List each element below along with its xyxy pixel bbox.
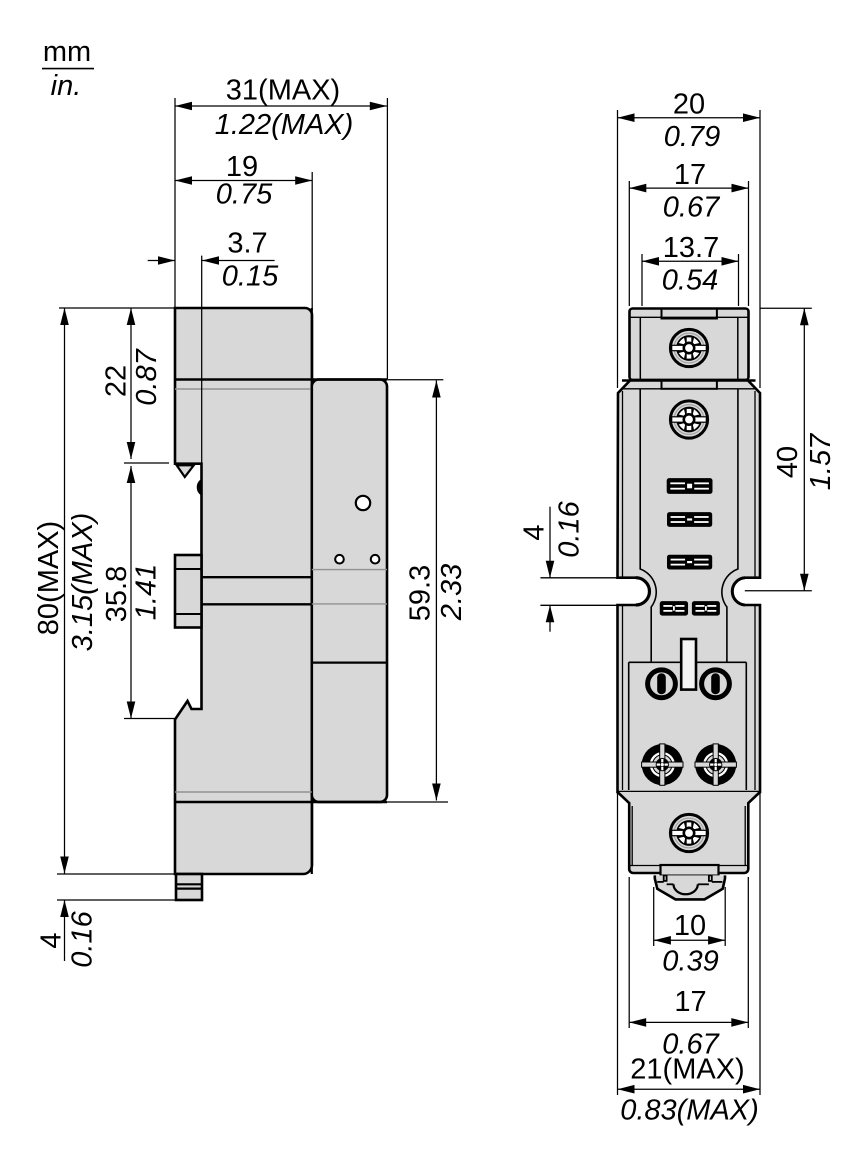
svg-text:22: 22 <box>101 365 133 397</box>
side view: front/rear vertical boundary <box>311 308 313 874</box>
dimension 4 rail height <box>519 500 586 631</box>
front view: screw terminal S4 <box>695 744 736 785</box>
front view: oval terminal P2 <box>702 670 730 698</box>
front view: screw S1 <box>670 329 707 366</box>
svg-text:10: 10 <box>674 910 706 942</box>
svg-text:1.57: 1.57 <box>805 432 837 490</box>
svg-text:0.15: 0.15 <box>222 261 279 293</box>
dimension 59.3 height <box>386 380 468 802</box>
dimension 35.8 height <box>101 466 175 719</box>
dimension 3.7 offset <box>148 228 279 464</box>
front view: small slot T5 <box>692 601 720 616</box>
front view: upper lip line of main section <box>622 381 756 389</box>
front view: DIN foot <box>655 875 725 899</box>
side view: main body silhouette <box>175 308 312 874</box>
front view: coil terminal slot T3 <box>667 555 712 570</box>
front view: main section outline <box>618 380 761 792</box>
front view: top section <box>630 309 749 381</box>
front view: main section top boundary <box>622 379 756 381</box>
front view: bottom rear tab <box>661 865 719 876</box>
dimension 80(MAX) height <box>33 308 99 874</box>
svg-text:2.33: 2.33 <box>436 564 468 621</box>
dimension 4 bottom height <box>36 874 176 968</box>
dimension 31(MAX) width <box>175 75 387 380</box>
dimension 13.7 width <box>642 232 739 306</box>
front view: oval terminal P1 <box>648 670 676 698</box>
side view: lower separation line <box>175 801 387 803</box>
svg-text:35.8: 35.8 <box>101 566 133 622</box>
DIN rail lines left of front view <box>540 578 618 606</box>
side view: thin gray line under top separation <box>175 388 312 390</box>
svg-text:40: 40 <box>772 446 804 478</box>
svg-text:17: 17 <box>674 986 706 1018</box>
svg-text:0.39: 0.39 <box>662 946 718 978</box>
front view: coil terminal slot T2 <box>667 512 712 527</box>
svg-text:59.3: 59.3 <box>405 565 437 621</box>
svg-text:0.87: 0.87 <box>131 347 163 405</box>
svg-text:0.16: 0.16 <box>554 500 586 557</box>
dimension 40 height <box>745 308 837 591</box>
front view: coil terminal slot T1 <box>667 478 713 494</box>
dimension 17 bottom width <box>629 877 748 1061</box>
front view: screw terminal S3 <box>642 744 683 785</box>
side view: DIN rail clamp protrusion <box>175 555 202 628</box>
svg-text:80(MAX): 80(MAX) <box>33 521 65 635</box>
front view: small slot T4 <box>660 601 688 616</box>
dimension 19 width <box>175 151 312 310</box>
svg-text:0.67: 0.67 <box>663 192 721 224</box>
side view: top/mid separation line <box>175 378 387 380</box>
legend mm/in <box>42 36 94 102</box>
svg-text:4: 4 <box>519 524 551 540</box>
front view: center tongue <box>681 639 696 690</box>
svg-text:mm: mm <box>43 36 91 68</box>
side view: rear (right) portion block <box>312 380 387 803</box>
side view: rear portion detail lines <box>312 570 387 663</box>
svg-text:1.41: 1.41 <box>131 564 163 620</box>
dimension 10 foot width <box>654 887 726 978</box>
front view: inner face outline <box>629 389 747 790</box>
front view: bottom section <box>618 792 761 873</box>
svg-text:0.83(MAX): 0.83(MAX) <box>620 1095 759 1127</box>
side view: front face rail slot lines <box>202 577 312 604</box>
dimension 21(MAX) width <box>618 793 761 1127</box>
svg-text:0.16: 0.16 <box>67 910 99 967</box>
svg-text:13.7: 13.7 <box>663 232 719 264</box>
front view: screw S2 <box>670 401 707 438</box>
svg-text:0.79: 0.79 <box>664 121 720 153</box>
svg-text:0.54: 0.54 <box>662 265 718 297</box>
dimension 20 width <box>618 89 761 389</box>
side view: DIN clip upper V notch <box>177 465 194 477</box>
svg-text:20: 20 <box>673 89 705 121</box>
side view: bottom tab <box>176 874 202 900</box>
front view: lower junction tabs <box>642 793 736 798</box>
dimension 22 height <box>59 308 175 463</box>
svg-text:0.75: 0.75 <box>216 179 273 211</box>
svg-text:31(MAX): 31(MAX) <box>226 75 340 107</box>
svg-text:in.: in. <box>51 70 82 102</box>
dimension 17 top width <box>629 159 748 306</box>
side view: lower thin gray line <box>175 791 312 793</box>
svg-text:4: 4 <box>36 932 68 948</box>
front view: bottom screw S5 <box>670 814 707 851</box>
svg-text:3.7: 3.7 <box>227 228 267 260</box>
svg-text:1.22(MAX): 1.22(MAX) <box>215 109 354 141</box>
svg-text:3.15(MAX): 3.15(MAX) <box>67 513 99 652</box>
side view: rear portion circle hole <box>356 496 370 510</box>
svg-text:17: 17 <box>674 159 706 191</box>
side view: rear portion small holes <box>335 555 379 564</box>
side view: DIN clip hook detail <box>197 479 203 497</box>
front view: inner bevel lines <box>623 391 756 790</box>
svg-text:21(MAX): 21(MAX) <box>630 1054 744 1086</box>
front view: DIN notch caps <box>636 578 745 605</box>
